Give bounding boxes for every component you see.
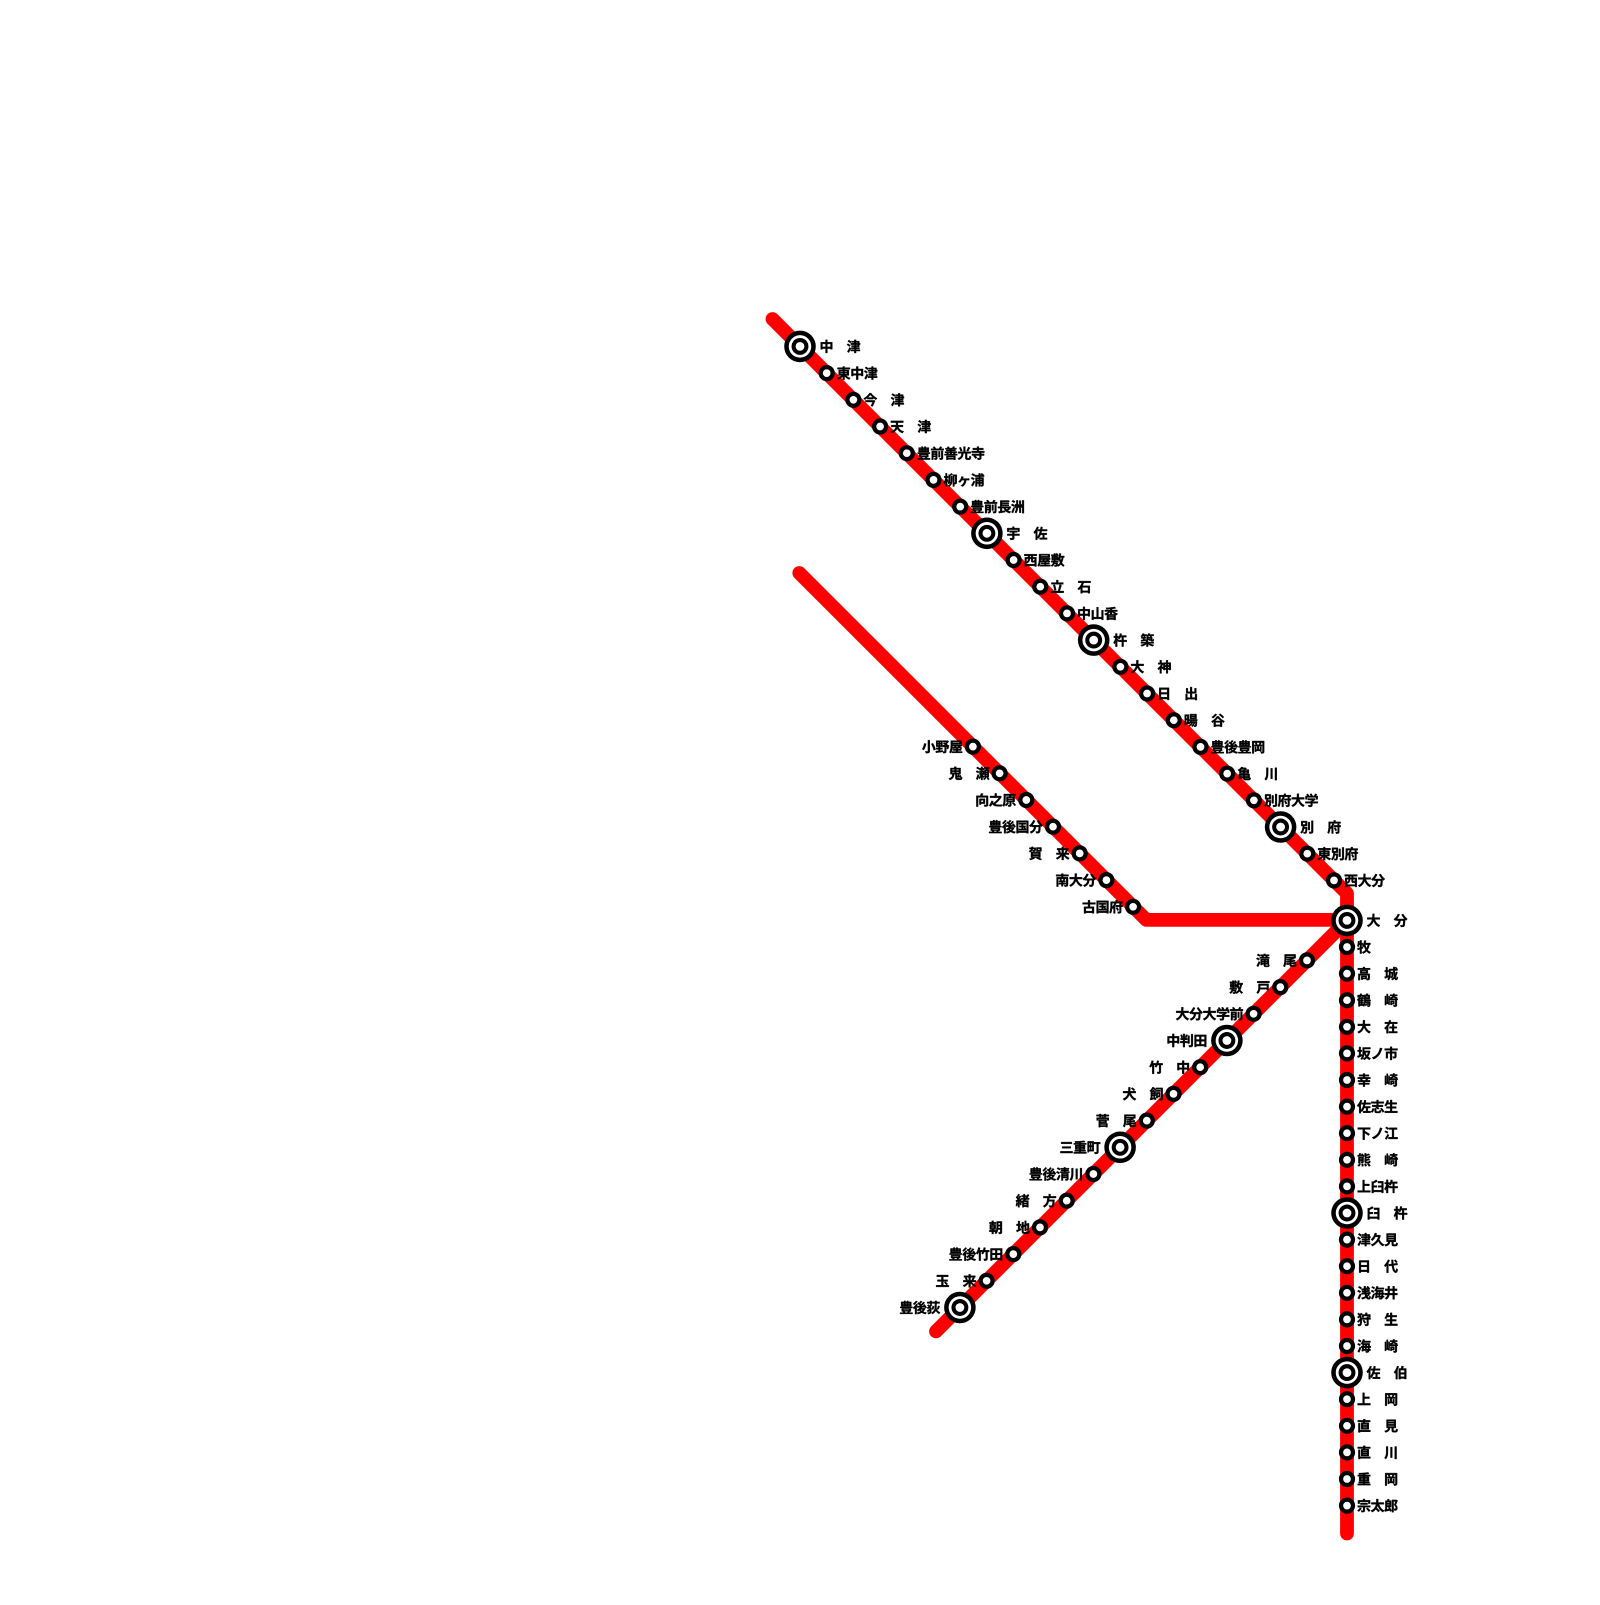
label 直川 (1358, 1446, 1397, 1459)
wire Hohi line (936, 920, 1347, 1331)
label 豊前善光寺 (918, 447, 985, 460)
station 鬼瀬 (992, 765, 1008, 781)
station 坂ノ市 (1339, 1045, 1355, 1061)
station 向之原 (1018, 792, 1034, 808)
station 敷戸 (1272, 979, 1288, 995)
label 柳ヶ浦 (944, 473, 984, 486)
label 海崎 (1357, 1339, 1397, 1352)
label 小野屋 (922, 740, 962, 753)
station 宗太郎 (1339, 1498, 1355, 1514)
station 亀川 (1219, 766, 1235, 782)
station 直見 (1339, 1418, 1355, 1434)
label 牧 (1357, 940, 1370, 953)
station 中判田 (1211, 1025, 1243, 1057)
station 豊前長洲 (952, 499, 968, 515)
station 南大分 (1098, 872, 1114, 888)
label 幸崎 (1358, 1073, 1398, 1086)
wire Nippo main line (Nakatsu diagonal + south vertical) (773, 319, 1348, 1534)
station 津久見 (1339, 1232, 1355, 1248)
label 別府大学 (1264, 794, 1318, 807)
label 朝地 (989, 1221, 1029, 1234)
station 今津 (845, 392, 861, 408)
station 豊後竹田 (1005, 1246, 1021, 1262)
station 海崎 (1339, 1338, 1355, 1354)
station 豊後荻 (944, 1292, 976, 1324)
label 玉来 (936, 1274, 976, 1287)
station 浅海井 (1339, 1285, 1355, 1301)
station 上臼杵 (1339, 1178, 1355, 1194)
station 西大分 (1326, 872, 1342, 888)
station 高城 (1339, 966, 1355, 982)
label 佐伯 (1367, 1366, 1407, 1379)
label 鶴崎 (1357, 994, 1398, 1007)
label 東別府 (1318, 847, 1358, 860)
station 緒方 (1059, 1193, 1075, 1209)
label 熊崎 (1358, 1153, 1398, 1166)
station 犬飼 (1165, 1086, 1181, 1102)
station 別府 (1265, 811, 1297, 843)
station 滝尾 (1299, 952, 1315, 968)
station 菅尾 (1139, 1113, 1155, 1129)
label 向之原 (976, 793, 1015, 806)
station 佐志生 (1339, 1099, 1355, 1115)
label 高城 (1358, 967, 1398, 980)
label 狩生 (1357, 1313, 1397, 1326)
label 直見 (1358, 1419, 1398, 1432)
label 臼杵 (1368, 1206, 1407, 1219)
label 上臼杵 (1358, 1180, 1398, 1193)
station 日代 (1339, 1258, 1355, 1274)
label 豊後国分 (989, 820, 1043, 833)
station 大在 (1339, 1019, 1355, 1035)
label 滝尾 (1256, 954, 1296, 967)
station 杵築 (1078, 624, 1110, 656)
label 豊後荻 (900, 1301, 940, 1314)
station 東中津 (819, 365, 835, 381)
label 上岡 (1358, 1393, 1398, 1406)
label 犬飼 (1123, 1087, 1163, 1100)
label 大在 (1358, 1020, 1398, 1033)
station 大神 (1112, 659, 1128, 675)
label 中判田 (1168, 1034, 1207, 1047)
station 柳ヶ浦 (925, 472, 941, 488)
label 杵築 (1114, 633, 1154, 646)
label 天津 (890, 420, 930, 433)
label 賀来 (1029, 847, 1069, 860)
label 重岡 (1358, 1472, 1397, 1485)
wire Kyudai line (799, 573, 1347, 920)
station 臼杵 (1331, 1197, 1363, 1229)
station 狩生 (1339, 1311, 1355, 1327)
station 中津 (784, 331, 816, 363)
station 大分大学前 (1246, 1006, 1262, 1022)
station 玉来 (979, 1273, 995, 1289)
label 鬼瀬 (949, 767, 990, 780)
label 豊後清川 (1029, 1167, 1081, 1180)
station 幸崎 (1339, 1072, 1355, 1088)
station 賀来 (1072, 845, 1088, 861)
label 緒方 (1016, 1194, 1056, 1207)
station 佐伯 (1331, 1357, 1363, 1389)
station 古国府 (1125, 899, 1141, 915)
station 天津 (872, 418, 888, 434)
station 立石 (1032, 579, 1048, 595)
station 鶴崎 (1339, 992, 1355, 1008)
label 竹中 (1149, 1061, 1189, 1074)
station 宇佐 (971, 518, 1003, 550)
station 三重町 (1104, 1132, 1136, 1164)
label 立石 (1051, 580, 1091, 593)
label 古国府 (1083, 900, 1123, 913)
station 重岡 (1339, 1471, 1355, 1487)
station 熊崎 (1339, 1152, 1355, 1168)
station 上岡 (1339, 1391, 1355, 1407)
station 暘谷 (1166, 712, 1182, 728)
station 朝地 (1032, 1219, 1048, 1235)
label 敷戸 (1230, 980, 1270, 993)
label 日出 (1159, 687, 1197, 700)
station 直川 (1339, 1444, 1355, 1460)
label 豊後竹田 (949, 1247, 1002, 1260)
label 豊後豊岡 (1211, 740, 1264, 753)
station 日出 (1139, 685, 1155, 701)
label 大神 (1131, 660, 1171, 673)
label 亀川 (1238, 767, 1277, 780)
label 大分 (1367, 914, 1407, 927)
label 別府 (1300, 820, 1340, 833)
label 下ノ江 (1358, 1127, 1398, 1140)
label 暘谷 (1185, 714, 1225, 727)
label 菅尾 (1096, 1114, 1136, 1127)
label 佐志生 (1357, 1100, 1397, 1113)
station 東別府 (1299, 846, 1315, 862)
label 西大分 (1345, 874, 1385, 887)
label 中津 (821, 340, 860, 353)
label 日代 (1359, 1260, 1398, 1273)
label 西屋敷 (1024, 553, 1064, 566)
station 小野屋 (965, 739, 981, 755)
station 竹中 (1192, 1059, 1208, 1075)
station 豊前善光寺 (899, 445, 915, 461)
label 三重町 (1060, 1141, 1100, 1154)
station 牧 (1339, 939, 1355, 955)
label 浅海井 (1357, 1286, 1397, 1299)
label 南大分 (1056, 874, 1096, 887)
label 宇佐 (1007, 527, 1047, 540)
station 下ノ江 (1339, 1125, 1355, 1141)
label 宗太郎 (1357, 1499, 1397, 1512)
label 中山香 (1078, 607, 1118, 620)
label 東中津 (837, 367, 877, 380)
station 豊後豊岡 (1192, 739, 1208, 755)
label 大分大学前 (1176, 1007, 1243, 1020)
label 豊前長洲 (971, 500, 1024, 513)
station 豊後国分 (1045, 819, 1061, 835)
station 西屋敷 (1006, 552, 1022, 568)
label 坂ノ市 (1357, 1047, 1397, 1060)
station 中山香 (1059, 605, 1075, 621)
station 大分 (1331, 905, 1363, 937)
label 津久見 (1357, 1233, 1397, 1246)
label 今津 (864, 393, 904, 406)
station 豊後清川 (1085, 1166, 1101, 1182)
station 別府大学 (1246, 792, 1262, 808)
